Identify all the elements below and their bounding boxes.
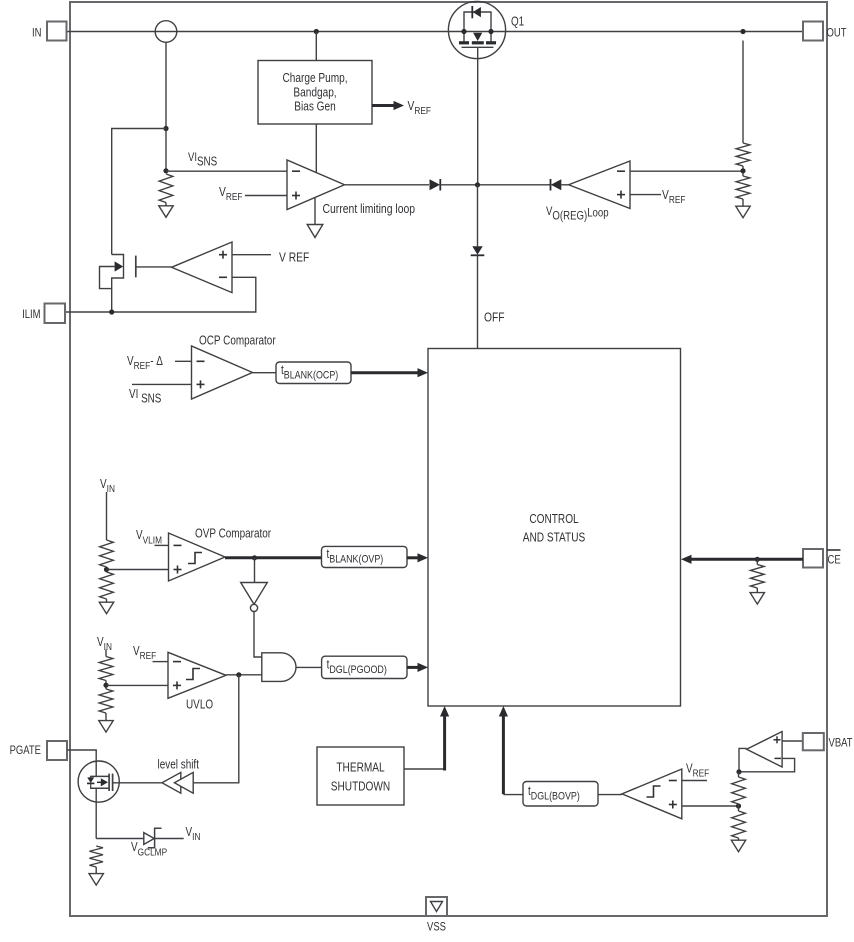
wire VISNS to current-limit amp	[166, 170, 287, 172]
svg-text:PGATE: PGATE	[10, 744, 41, 757]
svg-text:AND STATUS: AND STATUS	[523, 532, 586, 545]
svg-text:SHUTDOWN: SHUTDOWN	[331, 781, 390, 794]
node CE pulldown	[755, 557, 760, 562]
wire charge pump to amp top	[315, 124, 317, 173]
zener diode VGCLMP	[144, 833, 154, 845]
node UVLO divider	[103, 683, 108, 688]
label VO(REG) Loop	[546, 205, 609, 223]
label VVLIM	[136, 529, 162, 547]
ground RSNS	[159, 206, 173, 218]
ground UVLO divider	[99, 721, 113, 733]
label OVP comparator	[195, 528, 271, 541]
label VREF UVLO	[133, 645, 156, 662]
wire sense tap down	[165, 42, 167, 171]
block charge pump / bandgap / bias gen	[258, 61, 372, 125]
resistor RUVLO2	[99, 689, 113, 713]
wire zener to VIN	[155, 838, 184, 840]
wire VIN down	[106, 492, 108, 540]
wire delay to BOVP comparator	[598, 794, 622, 796]
svg-text:Bias Gen: Bias Gen	[294, 101, 336, 114]
pin VBAT	[803, 733, 824, 750]
pin ILIM	[45, 304, 66, 324]
label VIN clamp	[186, 826, 201, 843]
svg-text:CE: CE	[828, 554, 841, 567]
resistor RCE	[751, 565, 765, 589]
node Q1 right	[488, 29, 493, 34]
svg-text:OCP Comparator: OCP Comparator	[199, 335, 276, 348]
arrow CE to control	[689, 558, 803, 561]
wire thermal to control riser	[404, 768, 445, 770]
node OFF junction	[475, 182, 480, 187]
label VISNS OCP	[129, 388, 161, 406]
node OVP divider	[104, 567, 109, 572]
node UVLO output	[236, 672, 241, 677]
svg-text:OFF: OFF	[484, 310, 505, 324]
wire	[106, 567, 108, 572]
delay tDGL(PGOOD)	[322, 656, 407, 678]
svg-text:V REF: V REF	[279, 250, 309, 264]
wire VREF to plus input	[245, 195, 287, 197]
arrow OCP blank to control	[351, 371, 420, 374]
pin IN	[47, 22, 67, 41]
svg-text:UVLO: UVLO	[186, 699, 213, 712]
transistor Q2 (PGATE driver)	[78, 761, 119, 802]
label VREF - delta	[127, 355, 163, 372]
wire VISNS input	[132, 383, 192, 385]
svg-text:Charge Pump,: Charge Pump,	[282, 72, 347, 85]
label V REF ILIM	[279, 250, 309, 264]
AND gate (PGOOD)	[262, 653, 296, 682]
svg-text:VBAT: VBAT	[829, 737, 853, 750]
resistor ROUT1	[736, 143, 750, 166]
diode D3 (to control)	[472, 246, 482, 255]
wire	[738, 804, 740, 811]
node divider mid	[740, 168, 745, 173]
wire to inverter	[254, 558, 256, 583]
resistor RUVLO1	[99, 657, 113, 681]
wire diode row	[440, 184, 551, 186]
svg-text:OVP Comparator: OVP Comparator	[195, 528, 271, 541]
label VREF current limit	[219, 185, 243, 203]
pin OUT	[803, 22, 823, 41]
wire to ILIM FET drain	[112, 129, 166, 255]
wire OFF to control box	[477, 255, 479, 348]
label VREF charge pump	[408, 99, 432, 117]
resistor RPGATE	[89, 846, 103, 867]
resistor ROVP2	[100, 572, 114, 599]
arrow VREF output	[372, 104, 396, 107]
ground current limit amp	[307, 225, 323, 238]
comparator OVP	[169, 533, 226, 581]
label OFF	[484, 310, 505, 324]
wire	[165, 203, 167, 207]
ground CE pulldown	[750, 593, 764, 605]
wire BOVP plus to divider	[682, 805, 739, 807]
wire to VOREG amp tip	[561, 184, 568, 186]
VBAT amp input signs	[774, 739, 781, 741]
wire main rail IN to OUT	[66, 31, 803, 33]
wire plus to VBAT pin	[782, 740, 803, 742]
wire	[742, 199, 744, 207]
inverter (OVP to PGOOD gate)	[241, 583, 268, 605]
node VBAT divider mid	[736, 803, 741, 808]
resistor RVBAT1	[732, 777, 746, 804]
wire	[105, 713, 107, 721]
node VISNS	[163, 168, 168, 173]
pin VSS	[426, 897, 447, 916]
wire	[95, 867, 97, 874]
op-amp VBAT buffer	[747, 732, 783, 768]
wire amp to ground	[314, 198, 316, 226]
wire VBAT amp output	[739, 748, 747, 771]
block CONTROL AND STATUS	[428, 349, 681, 707]
delay tDGL(BOVP)	[523, 782, 598, 807]
wire	[756, 588, 758, 593]
wire OFF upper	[477, 185, 479, 247]
op-amp VO(REG) loop	[569, 161, 630, 209]
wire VIN down	[105, 650, 107, 657]
comparator BOVP	[622, 769, 682, 819]
node OVP output	[252, 555, 257, 560]
svg-text:THERMAL: THERMAL	[336, 762, 385, 775]
wire PGATE to Q2	[67, 750, 96, 761]
wire VVLIM input	[155, 544, 169, 546]
wire	[738, 772, 740, 777]
wire	[742, 166, 744, 176]
node OUT rail tap	[740, 29, 745, 34]
label VISNS	[188, 151, 217, 169]
op-amp ILIM	[172, 242, 233, 293]
node charge pump tap	[314, 29, 319, 34]
label VREF VOREG	[662, 188, 686, 206]
wire divider to UVLO plus	[106, 684, 168, 686]
arrow PGOOD delay to control	[407, 666, 420, 669]
resistor RSNS	[159, 174, 173, 203]
svg-text:Q1: Q1	[511, 16, 524, 29]
arrow BOVP delay to control	[502, 714, 505, 794]
wire level shift to Q2 gate	[113, 782, 163, 784]
wire	[756, 559, 758, 564]
wire AND output	[296, 666, 322, 668]
label VIN OVP divider	[100, 478, 115, 495]
wire inverter to AND gate	[254, 612, 262, 658]
wire OUT divider top	[742, 41, 744, 144]
level shift buffer (double triangle)	[162, 772, 181, 793]
ground OVP divider	[99, 602, 113, 614]
svg-text:level shift: level shift	[158, 759, 200, 772]
wire UVLO output	[226, 674, 262, 676]
transistor Q1	[448, 1, 505, 58]
wire	[106, 599, 108, 603]
label VREF BOVP	[686, 763, 709, 780]
wire minus input to divider	[630, 170, 743, 172]
diode D1 (current loop OR)	[430, 179, 441, 190]
wire plus to V REF label	[232, 254, 271, 256]
svg-text:OUT: OUT	[827, 27, 847, 40]
svg-text:Current limiting loop: Current limiting loop	[323, 201, 416, 217]
diode D2 (VOREG loop OR)	[551, 179, 562, 190]
wire OCP output	[253, 372, 277, 374]
label level shift	[158, 759, 200, 772]
ground OUT divider	[736, 206, 750, 218]
comparator UVLO	[168, 652, 226, 698]
label CE	[828, 554, 841, 567]
label Q1	[511, 16, 524, 29]
node sense tap junction	[163, 126, 168, 131]
wire to clamp zener	[96, 838, 144, 840]
svg-text:ILIM: ILIM	[22, 308, 40, 321]
ground VBAT divider	[731, 840, 745, 852]
wire UVLO to level shift	[193, 675, 239, 783]
arrow thermal shutdown to control	[443, 714, 446, 771]
wire	[738, 838, 740, 841]
ground PGATE pulldown	[89, 874, 103, 886]
current sense element	[155, 21, 177, 43]
label UVLO	[186, 699, 213, 712]
wire rail to charge pump	[315, 32, 317, 61]
label current limiting loop	[323, 201, 416, 217]
arrow OVP blank to control	[407, 556, 420, 559]
label VIN UVLO divider	[97, 636, 112, 653]
pin PGATE	[47, 741, 67, 760]
svg-text:CONTROL: CONTROL	[529, 513, 579, 526]
pin CE	[803, 549, 823, 568]
resistor ROVP1	[100, 540, 114, 567]
wire amp output	[345, 184, 430, 186]
wire OVP output	[225, 556, 322, 559]
wire BOVP minus VREF	[682, 780, 707, 782]
wire Q1 gate down	[477, 47, 479, 185]
svg-text:VSS: VSS	[427, 921, 446, 934]
wire divider to OVP plus	[107, 569, 169, 571]
resistor RVBAT2	[732, 811, 746, 838]
wire VREF input UVLO	[153, 661, 169, 663]
node Q1 left	[461, 29, 466, 34]
overline CE	[827, 549, 841, 551]
op-amp current limiting loop	[287, 160, 345, 210]
wire VBAT amp feedback	[739, 758, 795, 771]
transistor ILIM clamp FET	[100, 255, 172, 313]
label VGCLMP	[131, 841, 167, 859]
block THERMAL SHUTDOWN	[317, 747, 404, 805]
wire ILIM feedback loop	[65, 277, 256, 312]
delay tBLANK(OCP)	[276, 362, 351, 384]
node ILIM junction	[109, 309, 114, 314]
svg-text:Bandgap,: Bandgap,	[293, 86, 336, 99]
wire plus input VREF	[630, 194, 661, 196]
resistor ROUT2	[736, 176, 750, 199]
delay tBLANK(OVP)	[322, 546, 408, 567]
wire riser to BOVP delay	[503, 794, 523, 796]
node VBAT amp output	[736, 769, 741, 774]
wire	[105, 681, 107, 690]
wire Q2 source down	[95, 802, 97, 838]
label OCP comparator	[199, 335, 276, 348]
wire VREF-delta input	[175, 360, 192, 362]
svg-text:IN: IN	[32, 27, 41, 40]
comparator OCP	[192, 346, 253, 399]
